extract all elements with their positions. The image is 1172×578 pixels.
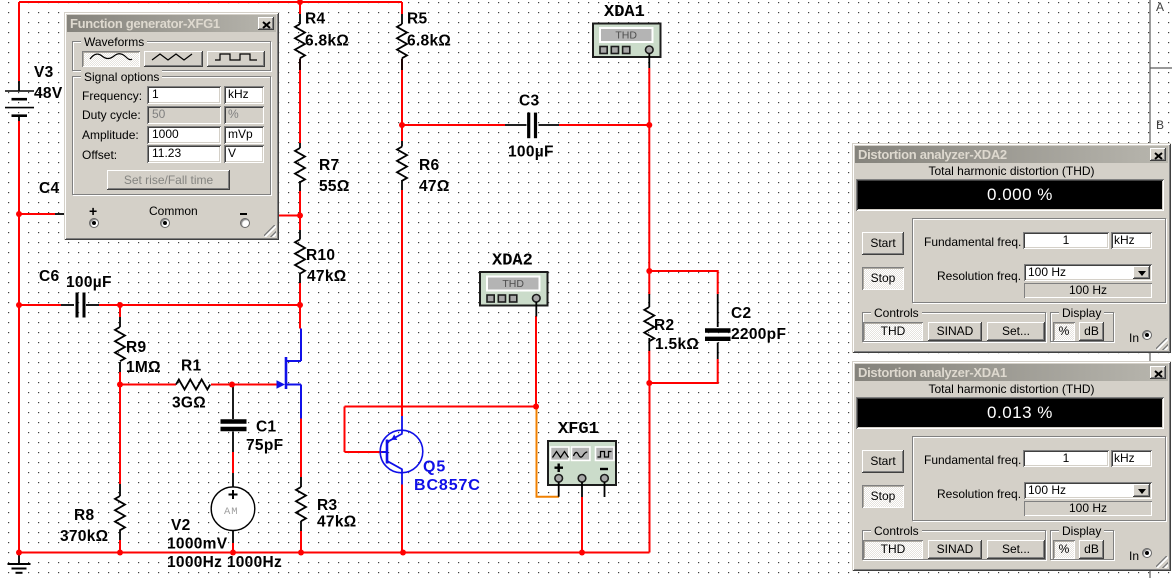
svg-text:C4: C4: [39, 180, 59, 197]
wire C6 right to R4 column: [99, 304, 300, 306]
wire V3 top: [18, 2, 20, 81]
svg-text:R10: R10: [306, 247, 335, 264]
wire bottom rail: [18, 552, 650, 554]
wire R8 bottom: [119, 540, 121, 553]
resistor R6: [397, 141, 450, 195]
AM source V2: [167, 473, 282, 571]
wire C2 branch bottom: [649, 359, 717, 383]
capacitor C3: [505, 93, 559, 161]
svg-text:XDA2: XDA2: [492, 252, 533, 271]
wire R9 bottom: [119, 372, 121, 385]
wire Q5 collector down: [401, 485, 403, 553]
svg-text:75pF: 75pF: [246, 437, 283, 454]
wire R5-R6: [401, 59, 403, 142]
wire base loop horizontal: [345, 406, 537, 408]
svg-text:C1: C1: [256, 419, 276, 436]
svg-text:V2: V2: [171, 517, 191, 534]
svg-text:1.5kΩ: 1.5kΩ: [655, 336, 699, 353]
svg-text:THD: THD: [502, 278, 524, 290]
transistor Q5: [380, 416, 481, 494]
svg-text:THD: THD: [615, 30, 637, 42]
resistor R1: [172, 358, 210, 412]
wire R5 top lead: [401, 2, 403, 14]
svg-text:R4: R4: [305, 11, 325, 28]
svg-text:47kΩ: 47kΩ: [307, 268, 347, 285]
svg-text:V3: V3: [34, 64, 54, 81]
instrument XFG1 (function generator): [548, 420, 616, 497]
wire R6 down to Q5 emitter: [401, 190, 403, 416]
wire XFG1 common down: [581, 497, 583, 553]
transistor Q1: [277, 329, 302, 419]
svg-text:B: B: [1156, 118, 1164, 132]
svg-text:1000mV: 1000mV: [167, 536, 228, 553]
wire Q1 source down: [300, 419, 302, 478]
svg-text:Q5: Q5: [423, 459, 446, 476]
wire V2 bottom: [232, 543, 234, 553]
wire orange XDA2 node to XFG1 plus: [537, 407, 560, 497]
svg-text:XDA1: XDA1: [604, 3, 645, 22]
svg-text:C2: C2: [731, 305, 751, 322]
svg-text:55Ω: 55Ω: [319, 178, 350, 195]
wire R2 top lead: [648, 271, 650, 295]
wire left column low: [18, 305, 20, 553]
svg-text:R7: R7: [319, 157, 339, 174]
wire base node to transistor: [232, 384, 278, 386]
wire top rail: [19, 1, 402, 3]
wire base loop vertical: [344, 407, 346, 453]
svg-text:1000Hz 1000Hz: 1000Hz 1000Hz: [167, 554, 282, 571]
wire C2 branch top: [649, 271, 717, 294]
svg-text:XFG1: XFG1: [558, 420, 599, 439]
resistor R10: [295, 230, 347, 285]
svg-text:47Ω: 47Ω: [419, 178, 450, 195]
resistor R9: [115, 317, 161, 376]
wire R1 right: [211, 384, 232, 386]
svg-text:6.8kΩ: 6.8kΩ: [407, 33, 451, 50]
resistor R7: [295, 143, 350, 195]
wire R4 top lead: [299, 2, 301, 14]
wire R2 column to bottom rail: [649, 383, 651, 553]
wire XDA2 input: [535, 316, 537, 407]
svg-text:100µF: 100µF: [508, 144, 554, 161]
wire R10 bottom: [299, 283, 301, 329]
svg-text:R3: R3: [317, 497, 337, 514]
resistor R8: [60, 484, 125, 545]
svg-text:47kΩ: 47kΩ: [317, 514, 357, 531]
resistor R2: [644, 294, 699, 353]
svg-text:3GΩ: 3GΩ: [172, 395, 206, 412]
svg-text:R8: R8: [74, 507, 94, 524]
svg-text:R9: R9: [126, 339, 146, 356]
capacitor C4: [39, 180, 64, 214]
wire R4-R7: [299, 59, 301, 144]
svg-text:C6: C6: [39, 268, 59, 285]
capacitor C1: [221, 385, 284, 455]
wire R3 bottom: [300, 531, 302, 553]
capacitor C6: [39, 268, 112, 318]
svg-text:1MΩ: 1MΩ: [126, 359, 161, 376]
svg-text:R2: R2: [654, 317, 674, 334]
wire C1 to V2: [232, 452, 234, 473]
svg-text:BC857C: BC857C: [414, 477, 481, 494]
wire R8 column: [119, 385, 121, 485]
instrument XDA1 (THD meter): [593, 3, 661, 68]
svg-text:R5: R5: [407, 11, 427, 28]
wire base to Q5: [345, 451, 382, 453]
capacitor C2: [705, 294, 786, 359]
wire R9 top: [119, 305, 121, 317]
svg-text:2200pF: 2200pF: [731, 326, 786, 343]
svg-text:100µF: 100µF: [66, 274, 112, 291]
svg-text:R1: R1: [181, 358, 201, 375]
battery V3: [5, 64, 63, 121]
svg-text:R6: R6: [419, 157, 439, 174]
wire C4 stub: [19, 213, 55, 215]
svg-text:A: A: [1156, 0, 1164, 14]
wire XDA1 input: [648, 68, 650, 125]
svg-text:48V: 48V: [34, 85, 63, 102]
wire FG output to node: [279, 215, 300, 217]
wire C3 right: [559, 124, 649, 126]
svg-text:C3: C3: [519, 93, 539, 110]
svg-text:370kΩ: 370kΩ: [60, 528, 108, 545]
wire R1 left: [120, 384, 176, 386]
wire left column mid: [18, 214, 20, 305]
wire R2 bottom lead: [648, 351, 650, 384]
resistor R4: [295, 11, 349, 71]
ground: [8, 553, 31, 573]
svg-text:AM: AM: [224, 506, 239, 518]
wire V3 bottom to C4 node: [18, 121, 20, 214]
wire C6 left: [19, 304, 61, 306]
instrument XDA2 (THD meter): [480, 252, 548, 317]
wire R7-R10: [299, 191, 301, 230]
wire C3 left: [402, 124, 505, 126]
svg-text:6.8kΩ: 6.8kΩ: [305, 33, 349, 50]
wire XDA1-R2 column: [648, 125, 650, 272]
resistor R3: [296, 477, 357, 531]
resistor R5: [397, 11, 451, 71]
